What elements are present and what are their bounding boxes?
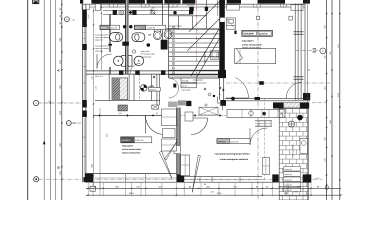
svg-text:бойлер ел. 80л: бойлер ел. 80л [292,144,295,157]
right dimension verticals [326,0,328,200]
second casement leaf [165,142,177,160]
svg-text:4: 4 [173,40,174,43]
top cut wall segments [80,0,83,4]
svg-text:7: 7 [173,53,174,56]
svg-text:120: 120 [95,86,98,89]
dashed line in closet [139,74,141,101]
bottom dimension line 2 y=195.2 [86,194,341,196]
svg-text:230: 230 [119,112,122,115]
white niche gap in stair wall [220,18,225,22]
furniture stack left of wall [162,109,177,126]
svg-text:мивка бм: мивка бм [285,184,293,187]
left page border line [27,0,29,200]
bath tub oval right [164,30,172,39]
svg-text:11: 11 [173,71,175,74]
svg-text:под паркет: под паркет [242,40,255,43]
svg-text:29/11 19.5: 29/11 19.5 [95,75,103,78]
svg-text:ТЕРАСА: ТЕРАСА [218,140,227,143]
svg-text:10: 10 [172,67,174,70]
left bottom corner column [84,177,89,182]
svg-text:под гранитогрес/мразоустойчив: под гранитогрес/мразоустойчив [215,152,251,155]
room north wall y=115.4 with dim crosses [93,114,177,116]
svg-text:4.10 м²: 4.10 м² [111,27,118,30]
axis dash y50.6 [296,50,320,52]
svg-text:стени латекс/тапет: стени латекс/тапет [242,43,263,46]
small box near right wall [289,16,292,20]
svg-text:мивка бм: мивка бм [285,168,293,171]
balcony door arc right wall [286,82,302,98]
tall window in bottom wall right [262,158,269,175]
wall columns (black squares) [113,10,117,15]
second door arc at stair bottom [169,88,179,98]
cross tick on dim [153,76,155,78]
inner vertical dim line x=93.5 [93,8,95,188]
top windows [110,4,118,7]
window band below counter [255,120,272,122]
svg-text:БАНЯ: БАНЯ [101,27,107,30]
axis bubble B2 [65,17,70,22]
toilet WC left (tank on partition) [122,56,126,67]
svg-text:13.27 м²: 13.27 м² [135,139,144,142]
toilet WC-3 [154,29,161,31]
machine room box in stair zone [211,51,219,60]
bottom right window band [184,179,262,181]
left vertical dimension chain [61,0,63,200]
small circle bottom right dim [325,186,329,190]
left wall window bands [83,27,85,44]
small box with X [152,105,159,109]
right exterior wall lines [294,4,296,101]
white window box top-left corner [95,4,100,10]
black dash on wall line [255,97,261,100]
window box near NE corner [291,5,303,11]
black block stair SW [186,101,191,106]
corridor door arcs at stair bottom [169,78,179,88]
svg-text:1085: 1085 [129,192,135,195]
svg-text:9: 9 [173,62,174,65]
svg-text:90: 90 [156,112,158,115]
svg-text:под мозайка: под мозайка [181,89,191,92]
door arc bathroom left [97,54,112,69]
svg-text:стени латекс/тапет: стени латекс/тапет [122,148,141,151]
wall x176.8-180 [177,108,180,183]
black column at stair-left [161,40,168,50]
bath tub right (stadium) [132,33,145,42]
closet wall x109.2 [108,74,110,101]
small box right of wall [185,112,193,121]
svg-text:СТЪЛБ.: СТЪЛБ. [182,80,190,83]
left extension line 3 [55,0,57,200]
svg-text:С9 12х17: С9 12х17 [187,1,194,4]
svg-text:преддверие: преддверие [193,80,203,82]
svg-text:мивка бм: мивка бм [285,189,293,192]
interior door arc bottom-left room [145,116,164,135]
small white box bottom-left [90,186,96,191]
svg-text:1.25: 1.25 [48,100,52,103]
svg-text:ИЗКАЧВАНЕ: ИЗКАЧВАНЕ [204,51,207,63]
living room label box [242,30,273,36]
kitchen counter [227,110,285,118]
staircase left edge [168,0,170,78]
gray block stair SW [178,100,186,105]
plus marks and tiny note left of living room [219,87,221,89]
terrace outer edge x307.6 [307,0,309,200]
duct shaft box near stair wall [226,18,235,29]
svg-text:415: 415 [210,191,213,194]
stacked small boxes with text (bottom strip) [284,167,301,171]
svg-text:под гранитогрес: под гранитогрес [193,83,207,85]
room label ДНЕВНА [121,137,152,143]
bottom black columns [85,173,93,182]
svg-text:топла/студ. вода: топла/студ. вода [141,53,155,56]
plumbing symbol circle [151,10,155,14]
small black jamb left of label [234,31,236,35]
black dot fixture on wall [173,11,176,14]
axis line y=103 with bubble [34,100,39,105]
inner wall line with columns y 10.4-14.6 [103,10,190,12]
svg-text:мивка бм: мивка бм [285,178,293,181]
svg-text:1085: 1085 [91,164,94,168]
black column bottom wall 1 [177,174,184,182]
staircase treads [169,28,220,30]
partition wall between bathrooms x125.4-128 [125,0,128,74]
small symbols near stair bottom [205,104,207,106]
door arc bathroom 2 [130,63,141,74]
stair diagonals (up-line) [189,1,219,32]
svg-text:таван лат.: таван лат. [95,39,104,41]
grid bubble top-left (cut) [33,0,39,4]
axis dash-dot y=83 [226,82,330,84]
bed furniture in living room [235,49,276,64]
terrace label box [217,139,250,144]
hatch strip between columns [284,103,301,107]
svg-text:2: 2 [173,31,174,34]
svg-text:стени минерална мазилка: стени минерална мазилка [220,158,249,161]
closet wall x151.7 [151,74,153,101]
svg-text:5: 5 [173,44,174,47]
bottom wall lines [93,173,177,175]
svg-text:12.70: 12.70 [182,85,188,88]
thick black stair wall x 219.3-224.8 [219,0,225,70]
small black square near stair bottom [173,84,176,88]
dim block on axis y83 [259,81,264,85]
door arc kitchen/terrace [250,128,267,145]
svg-text:3: 3 [173,35,174,38]
svg-text:ДНЕВНА: ДНЕВНА [121,139,131,142]
black dot in brick strip [297,115,303,121]
window box left corner [82,4,90,10]
floor drain dots [123,25,126,28]
wardrobe furniture rect with X [199,107,218,115]
black dot fixture near column [147,43,151,47]
small black tap mark [108,44,112,46]
bathroom west wall with door gap [108,15,110,53]
closet wall x129.1 [128,74,130,101]
window box right of stair wall [227,5,240,11]
right wall window sills [294,31,304,33]
svg-text:12.97 м²: 12.97 м² [259,33,268,36]
svg-text:134.19: 134.19 [149,89,156,92]
stair landing grid (upper) [169,15,207,17]
extension line x100 [99,108,101,190]
svg-text:1: 1 [173,26,174,29]
black column terrace E [300,102,309,108]
svg-text:мивка бм: мивка бм [285,173,293,176]
black column x220 y100 [220,100,226,106]
axis dash y102.8 right [312,102,327,104]
bottom window mullions left span [93,177,177,179]
bathroom label box 1 [100,25,120,29]
big black column stair SW [218,70,226,78]
gray block left of stair blocks [168,102,178,108]
black corner column right [303,93,310,100]
axis line y=179.2 with bubble (dot) [34,177,39,182]
svg-text:1035: 1035 [217,192,223,195]
svg-text:СПАЛНЯ: СПАЛНЯ [244,33,254,36]
svg-text:20: 20 [219,93,221,96]
arrowhead on extension line x44.2 [43,140,46,144]
wall below column [223,78,225,100]
bathroom label box 2 [134,25,166,29]
red axis line x196.7 [196,0,198,79]
closet wall x134 [133,74,135,101]
dashed window centre line x264.5 [264,98,266,180]
bottom dimension line 1 y=188.3 [86,187,341,189]
terrace north wall band [225,98,310,100]
wash basins on top wall [119,11,124,15]
svg-text:таван латекс/гипс: таван латекс/гипс [122,151,141,154]
shaft lower hatched box [118,105,127,111]
svg-text:под паркет: под паркет [122,144,133,147]
stair tread number circles [172,26,175,29]
svg-text:БАНЯ: БАНЯ [135,27,141,30]
brick hatched wall strip [279,109,308,201]
left extension line 2 [49,0,51,200]
svg-text:таван лат.: таван лат. [95,50,104,52]
bath tub left (stadium) [110,33,123,42]
closet wall x157-160 [156,74,158,105]
svg-text:90: 90 [204,183,206,186]
toilet WC right (tank on partition) [128,56,132,67]
black column terrace W [273,102,284,108]
svg-text:Ø50: Ø50 [152,7,155,10]
axis dashed line x=258 [257,8,259,200]
inner dim line x=101.4 [100,4,102,70]
small fixtures in strip [289,121,295,127]
black dot on wall line [231,97,235,101]
dark washbasin pair below partition [122,42,129,46]
svg-text:12.21 м²: 12.21 м² [230,140,238,143]
left exterior wall [82,4,84,182]
svg-text:щранг ВиК: щранг ВиК [141,50,151,53]
partition wall x162.6 [162,0,164,40]
open door leaf triangle 1 [159,151,172,178]
door arc bottom-middle room [191,118,208,135]
extension drops [87,183,89,196]
mid horizontal wall y 70.9-74.1 [86,70,226,72]
stair landing label boxes [181,78,197,83]
svg-text:6: 6 [173,49,174,52]
black tick upper stair 1 [189,7,194,11]
door opening white box in wall [174,146,180,154]
vent symbol above toilet [132,50,135,53]
closet south wall y100.6 [95,100,160,102]
left extension line 1 [43,0,45,200]
level marker benchmark circle +3.05 [140,85,147,92]
door arc to living room [236,78,249,98]
step corner polyline stair SE [218,97,223,111]
svg-text:изкачване: изкачване [187,4,195,6]
svg-text:+2.05: +2.05 [87,14,90,19]
top wall double line y 4.2/7.0 [83,3,306,5]
axis bubble 25 [66,121,71,126]
svg-text:290: 290 [294,191,297,194]
svg-text:216: 216 [91,76,94,79]
wardrobe right of wall [181,155,190,176]
shaft with diagonal hatch [112,78,128,100]
small box on axis [256,16,259,19]
svg-text:ов 25: ов 25 [315,177,319,180]
svg-text:8: 8 [173,58,174,61]
stair bottom edge y78 [169,77,220,79]
black tick upper stair 2 [205,7,208,11]
brick strip outline [279,109,308,201]
open door leaf triangle 2 [192,155,200,192]
